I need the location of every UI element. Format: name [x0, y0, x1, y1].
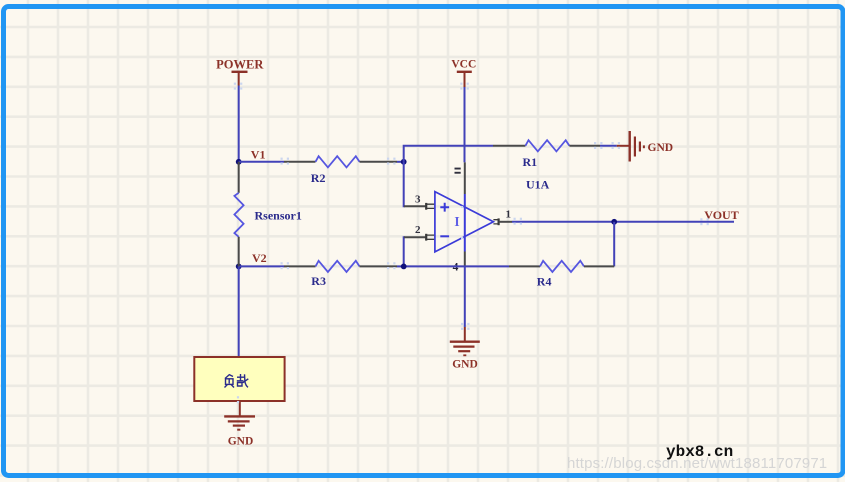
op-amp internal vertical line: [464, 194, 466, 252]
svg-text:POWER: POWER: [216, 58, 264, 72]
svg-text:3: 3: [415, 194, 421, 206]
resistor Rsensor1 zigzag: [234, 193, 243, 237]
junction node C: [611, 219, 617, 225]
svg-text:Rsensor1: Rsensor1: [255, 208, 302, 222]
resistor R3 zigzag: [316, 261, 360, 272]
resistor R3 pin 1 lead: [284, 265, 316, 267]
svg-text:R3: R3: [311, 274, 326, 288]
op-amp U1 pin 3 connector box: [426, 203, 435, 210]
resistor Rsensor1 pin 2 lead: [238, 237, 240, 267]
resistor R2 pin 1 lead: [284, 161, 316, 163]
wire VCC to pin 11: [464, 87, 466, 162]
svg-text:1: 1: [506, 208, 512, 220]
svg-text:I: I: [454, 214, 459, 229]
ground GND3 bars: [450, 342, 480, 356]
wire POWER to V1: [238, 86, 240, 162]
svg-text:GND: GND: [452, 358, 478, 370]
resistor R4 pin 2 lead: [584, 265, 614, 267]
svg-text:U1A: U1A: [526, 178, 550, 192]
op-amp output pin 1 connector box: [493, 218, 498, 225]
junction node A: [401, 159, 407, 165]
svg-text:V2: V2: [252, 251, 267, 265]
op-amp U1 pin 2 connector box: [426, 234, 435, 241]
resistor R3 pin 2 lead: [360, 265, 398, 267]
wire output to VOUT: [512, 221, 734, 223]
load label 负载 glyphs: [225, 374, 249, 388]
junction V1: [236, 159, 242, 165]
power port POWER bar symbol: [232, 71, 248, 73]
resistor R1 zigzag: [525, 140, 569, 151]
wire node A down to pin 3: [404, 162, 405, 207]
svg-text:2: 2: [415, 224, 421, 236]
wire node B to R4 row: [404, 265, 509, 267]
svg-text:ybx8.cn: ybx8.cn: [666, 443, 733, 461]
resistor R2 pin 2 lead: [360, 161, 398, 163]
wire pin 4 to GND3: [464, 266, 466, 327]
svg-text:R4: R4: [537, 275, 552, 289]
wire node A up and right to R1: [404, 146, 493, 162]
op-amp pin 1 lead: [499, 221, 512, 223]
power port VCC stem: [464, 73, 466, 87]
power port POWER stem: [238, 73, 240, 86]
op-amp plus sign: [440, 203, 449, 212]
resistor R1 pin 2 lead: [569, 145, 600, 147]
load box: [194, 357, 284, 401]
junction node B: [401, 264, 407, 270]
svg-text:GND: GND: [228, 435, 254, 447]
svg-text:V1: V1: [251, 147, 266, 161]
wire V2 to load: [238, 266, 240, 357]
junction V2: [236, 264, 242, 270]
op-amp U1 pin 3 lead: [404, 205, 426, 207]
wire R2 to node A: [397, 161, 404, 163]
resistor R4 pin 1 lead: [509, 265, 540, 267]
op-amp pin 4 lead (vertical): [464, 252, 466, 267]
wire R1 to GND1: [600, 145, 617, 147]
op-amp U1 pin 2 lead: [404, 236, 426, 238]
power port VCC bar symbol: [457, 71, 472, 73]
op-amp U1A triangle: [435, 192, 494, 252]
wire V2 to R3: [239, 265, 284, 267]
svg-text:VCC: VCC: [451, 59, 476, 71]
resistor R2 zigzag: [316, 156, 360, 167]
ground GND2 stem below load: [239, 401, 241, 416]
ground GND2 bars: [224, 416, 255, 429]
op-amp pin 11 lead (vertical): [464, 162, 466, 194]
wire node B up to pin 2: [404, 237, 405, 266]
pin number 11 (rotated): [455, 168, 461, 174]
svg-text:VOUT: VOUT: [704, 208, 738, 222]
svg-text:R1: R1: [523, 155, 538, 169]
faint connection marks: [234, 83, 709, 404]
op-amp minus sign: [440, 235, 449, 237]
wire V1 to R2: [239, 161, 284, 163]
resistor R1 pin 1 lead: [493, 145, 525, 147]
ground GND3 stem: [464, 327, 466, 341]
ground GND1 stem (horizontal): [617, 145, 629, 147]
svg-text:R2: R2: [311, 171, 326, 185]
svg-text:GND: GND: [648, 142, 674, 154]
wire node C down to R4: [613, 222, 615, 267]
resistor Rsensor1 pin 1 lead: [238, 162, 240, 193]
wire R3 to node B: [397, 265, 404, 267]
ground GND1 bars (rotated): [630, 131, 644, 162]
resistor R4 zigzag: [540, 261, 584, 272]
